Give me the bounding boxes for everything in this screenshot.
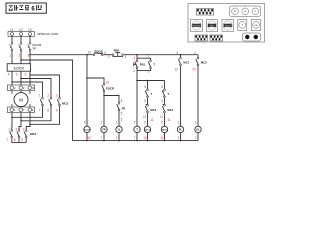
svg-text:FR: FR: [122, 107, 126, 111]
svg-text:8: 8: [14, 138, 16, 142]
svg-text:PB1: PB1: [140, 62, 146, 66]
MCCB label: [32, 43, 41, 51]
wire L1 drop: [12, 36, 30, 43]
wire: [164, 98, 166, 105]
svg-text:3: 3: [56, 94, 58, 98]
svg-text:RL: RL: [234, 11, 236, 13]
svg-text:9: 9: [21, 138, 23, 142]
node X junction: [11, 117, 13, 119]
coil T: [134, 126, 140, 132]
contact MC2-a to GL: [196, 57, 199, 66]
control tap node on L3: [29, 54, 31, 56]
svg-text:YL: YL: [117, 129, 121, 132]
svg-text:5: 5: [16, 72, 18, 76]
svg-text:MC2: MC2: [150, 108, 156, 112]
MC2 bottom numbers 7 8 9: [39, 109, 58, 113]
socket EOCR: [191, 20, 203, 32]
svg-text:EOCR: EOCR: [94, 49, 102, 53]
svg-text:MC1: MC1: [145, 130, 150, 132]
svg-text:6: 6: [161, 120, 163, 124]
svg-text:2: 2: [15, 128, 17, 132]
svg-text:T: T: [167, 92, 169, 96]
MC1 bottom numbers 7 8 9: [7, 138, 23, 142]
wire X to MC1 pole1: [11, 113, 13, 130]
lamp YL: [116, 126, 122, 132]
lamp cluster RL GL YL: [230, 6, 261, 17]
EOCR out numbers 4 5 6: [8, 72, 27, 76]
title text 공개도면 6번 (pseudo-glyphs): [9, 5, 42, 13]
wire to MC2 pole3: [30, 75, 60, 97]
contact T-b to MC1: [145, 89, 148, 98]
svg-text:11: 11: [150, 118, 154, 122]
svg-text:2: 2: [134, 120, 136, 124]
svg-text:6: 6: [161, 85, 163, 89]
svg-text:2: 2: [116, 136, 118, 140]
panel box: [188, 4, 265, 43]
svg-text:5: 5: [121, 117, 123, 121]
svg-text:10: 10: [175, 68, 179, 72]
wire PB1 drop: [136, 55, 138, 60]
coil FR: [101, 126, 107, 132]
svg-text:6: 6: [144, 120, 146, 124]
wire MC1 branch drop: [147, 81, 149, 90]
svg-text:RL: RL: [179, 129, 183, 132]
svg-text:T: T: [150, 92, 152, 96]
node MC branch: [136, 80, 138, 82]
terminal block top: [197, 9, 214, 16]
bottom bus: [73, 140, 199, 142]
pushbutton PB1 NO: [134, 60, 138, 69]
svg-text:L2: L2: [19, 28, 23, 32]
node Y junction: [20, 120, 22, 122]
lamp GL: [195, 126, 201, 132]
socket T: [238, 20, 247, 31]
svg-text:1: 1: [9, 54, 11, 58]
coil EOCR: [84, 126, 91, 132]
svg-text:6: 6: [84, 120, 86, 124]
motor top terminal strip U V W: [8, 85, 35, 91]
svg-text:8: 8: [47, 109, 49, 113]
svg-text:10: 10: [106, 80, 110, 84]
contact FR-a: [117, 102, 120, 111]
holding loop bottom wire: [137, 69, 151, 71]
svg-text:4: 4: [124, 55, 126, 59]
wires MCCB to EOCR: [12, 51, 30, 63]
svg-text:4: 4: [134, 56, 136, 60]
motor bottom terminal strip X Y Z: [8, 107, 35, 113]
MC1 top numbers 1 2 3: [8, 128, 24, 132]
wire MC2 branch drop: [164, 81, 166, 90]
svg-text:3: 3: [108, 55, 110, 59]
socket MC1: [207, 20, 218, 32]
node L1 to MC2: [11, 81, 13, 83]
contact T-a holding: [148, 60, 151, 69]
wire: [164, 113, 166, 126]
node FR/YL split: [103, 95, 105, 97]
svg-text:3P: 3P: [32, 47, 36, 51]
wire control feed top: [30, 54, 93, 56]
pushbutton PB0 NC in bus: [112, 53, 123, 57]
svg-text:7: 7: [39, 109, 41, 113]
svg-text:7: 7: [7, 138, 9, 142]
svg-text:2: 2: [47, 94, 49, 98]
svg-text:2: 2: [133, 69, 135, 73]
socket MC2: [222, 20, 234, 32]
svg-text:MC1: MC1: [167, 108, 173, 112]
star point bar: [12, 138, 26, 143]
wire to node: [103, 92, 105, 126]
wire numbers 1 2 3: [9, 54, 29, 58]
svg-text:9: 9: [56, 109, 58, 113]
contact MC1-a to RL: [178, 57, 181, 66]
contactor MC1 main contacts: [10, 130, 28, 138]
motor M: [12, 91, 30, 108]
lamp RL: [177, 126, 183, 132]
svg-text:GL: GL: [196, 129, 200, 132]
wire: [147, 113, 149, 126]
phase labels L1 L2 L3: [10, 28, 32, 32]
red digits above coils: [84, 117, 197, 124]
svg-text:7: 7: [134, 136, 136, 140]
svg-text:2: 2: [101, 120, 103, 124]
pushbutton box: [243, 33, 261, 41]
svg-text:8: 8: [104, 51, 106, 55]
svg-text:2: 2: [18, 54, 20, 58]
wires EOCR to motor: [12, 71, 30, 85]
svg-text:MC1: MC1: [183, 61, 189, 65]
svg-text:5: 5: [121, 111, 123, 115]
svg-text:1: 1: [116, 120, 118, 124]
svg-text:2: 2: [177, 136, 179, 140]
svg-text:EOCR: EOCR: [14, 66, 25, 70]
svg-text:1: 1: [148, 55, 150, 59]
svg-text:MC2: MC2: [225, 25, 230, 27]
svg-text:M: M: [19, 97, 23, 102]
EOCR box: [7, 64, 30, 71]
svg-text:EOCR: EOCR: [106, 87, 114, 91]
contact MC1-b interlock: [162, 104, 165, 113]
wire to MC2 pole1: [12, 82, 43, 97]
svg-text:4: 4: [8, 72, 10, 76]
wire EOCR coil drop: [86, 55, 88, 127]
svg-text:10: 10: [192, 68, 196, 72]
wire fault branch: [87, 78, 104, 83]
wire RL drop: [180, 55, 182, 58]
node PB1 tap: [136, 54, 138, 56]
svg-text:6: 6: [144, 85, 146, 89]
wire control feed left rail: [21, 60, 73, 141]
svg-text:T: T: [153, 62, 155, 66]
svg-text:3: 3: [23, 128, 25, 132]
wire to RL: [180, 66, 182, 126]
svg-text:PB0: PB0: [114, 49, 120, 53]
contact EOCR-b in bus: [93, 52, 103, 56]
svg-text:11: 11: [167, 118, 171, 122]
terminal block bottom left: [195, 35, 208, 41]
wire Y to MC1 pole2: [19, 113, 21, 130]
contact T-a delayed to MC2: [162, 89, 165, 98]
svg-text:4: 4: [176, 51, 178, 55]
terminal block bottom right: [210, 35, 223, 41]
MC2 top numbers 1 2 3: [39, 94, 58, 98]
source terminal strip: [8, 32, 35, 37]
svg-text:1: 1: [8, 128, 10, 132]
title box: [6, 3, 46, 13]
socket FR: [251, 20, 260, 31]
svg-text:6: 6: [25, 72, 27, 76]
svg-text:3: 3: [148, 69, 150, 73]
svg-text:4: 4: [194, 51, 196, 55]
svg-text:11: 11: [143, 115, 147, 119]
svg-text:YL: YL: [254, 11, 256, 13]
svg-text:8: 8: [121, 99, 123, 103]
node RL tap: [180, 54, 182, 56]
svg-text:5: 5: [161, 99, 163, 103]
svg-text:L1: L1: [10, 28, 14, 32]
svg-text:U: U: [14, 87, 16, 90]
wire Z to MC1 pole3: [26, 113, 30, 130]
svg-text:12: 12: [160, 136, 164, 140]
holding loop top wire: [137, 58, 151, 60]
wire to MC2 pole2: [21, 79, 51, 98]
svg-text:11: 11: [160, 115, 164, 119]
coil MC1: [144, 126, 150, 132]
node fault branch: [86, 77, 88, 79]
svg-text:MC2: MC2: [62, 101, 69, 105]
wire PB1 to T coil: [136, 69, 138, 127]
svg-text:MC1: MC1: [30, 132, 37, 136]
wire FR contact to YL: [118, 111, 120, 126]
svg-text:12: 12: [87, 136, 91, 140]
node MC1 branch: [147, 80, 149, 82]
control tap node on L2: [20, 59, 22, 61]
wire MC2 pole1 to X: [12, 106, 43, 117]
svg-text:3P3W AC 220V: 3P3W AC 220V: [37, 32, 59, 36]
contact EOCR-a: [102, 83, 105, 92]
bus junction nodes: [86, 140, 181, 142]
svg-text:MC2: MC2: [201, 61, 207, 65]
svg-text:EOCR: EOCR: [193, 25, 200, 27]
node L3 to MC2: [29, 74, 31, 76]
contact MC2-b interlock: [145, 104, 148, 113]
svg-text:MC1: MC1: [210, 25, 215, 27]
svg-text:MC2: MC2: [162, 130, 167, 132]
svg-text:EOCR: EOCR: [84, 129, 90, 131]
wire MC2 pole3 to Z: [30, 106, 60, 124]
MCCB 3P breaker: [10, 43, 31, 52]
wire MC2 pole2 to Y: [21, 106, 51, 121]
svg-text:FR: FR: [102, 129, 105, 132]
svg-text:1: 1: [195, 120, 197, 124]
svg-text:L3: L3: [28, 28, 32, 32]
coil MC2: [161, 126, 167, 132]
wire YL branch: [104, 96, 119, 103]
svg-text:3: 3: [27, 54, 29, 58]
svg-text:7: 7: [101, 136, 103, 140]
svg-text:1: 1: [177, 120, 179, 124]
svg-text:10: 10: [88, 51, 92, 55]
node EOCR coil tap: [86, 54, 88, 56]
node Z junction: [29, 124, 31, 126]
svg-text:5: 5: [144, 99, 146, 103]
node L2 to MC2: [20, 78, 22, 80]
wire MC branch horizontal: [137, 80, 165, 82]
svg-text:2: 2: [195, 136, 197, 140]
wire GL corner: [197, 55, 199, 58]
svg-text:GL: GL: [244, 11, 247, 13]
coil stubs to bottom bus: [87, 133, 198, 141]
top bus segments: [103, 54, 198, 56]
svg-text:FR: FR: [255, 25, 258, 27]
wire: [147, 98, 149, 105]
red digits below coils: [87, 136, 196, 140]
svg-text:12: 12: [143, 136, 147, 140]
svg-text:1: 1: [39, 94, 41, 98]
contactor MC2 main contacts: [40, 97, 60, 106]
wire to GL: [197, 66, 199, 126]
